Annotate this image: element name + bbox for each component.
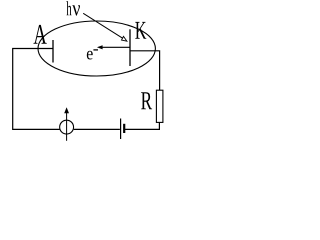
electrode K plate [129, 29, 131, 66]
electron arrow line [99, 46, 130, 48]
battery long plate [120, 119, 122, 140]
phototube envelope (ellipse) [38, 21, 155, 76]
wire right: K lead to right side down to resistor [130, 51, 160, 90]
electrode A plate [52, 40, 54, 63]
label e superscript minus [93, 49, 98, 51]
wire battery to meter [74, 128, 120, 130]
battery short plate [123, 124, 125, 133]
label R [141, 92, 152, 109]
label K [135, 22, 146, 39]
hnu arrowhead (open) [122, 36, 127, 41]
galvanometer circle [60, 120, 74, 134]
electron arrowhead [97, 45, 103, 49]
resistor R body [156, 90, 163, 122]
label A [34, 25, 47, 44]
label e [87, 51, 93, 60]
galvanometer needle [66, 112, 68, 141]
hnu photon arrow line [83, 13, 123, 38]
galvanometer arrowhead [64, 107, 69, 113]
wire left loop: top lead, left side, bottom-left [13, 49, 60, 130]
wire bottom-right: resistor bottom to battery [125, 122, 160, 129]
hnu label h [66, 1, 71, 15]
hnu label nu [72, 5, 80, 15]
